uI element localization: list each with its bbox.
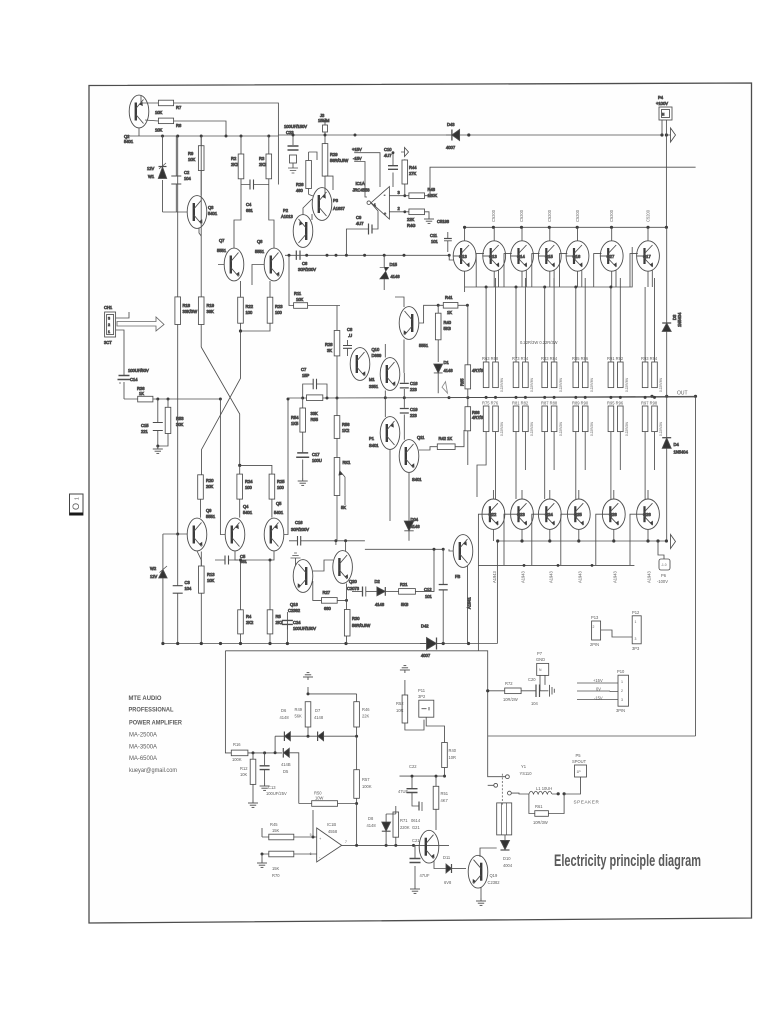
svg-text:Q13: Q13 — [459, 254, 467, 259]
node dots rail136 — [161, 135, 270, 138]
svg-text:R22: R22 — [246, 304, 254, 309]
svg-text:R45: R45 — [270, 822, 278, 827]
wire Q21 collector — [429, 828, 436, 830]
svg-text:10K: 10K — [296, 297, 304, 302]
svg-text:R29: R29 — [330, 152, 338, 157]
svg-text:+: + — [384, 212, 386, 216]
wire Q2 emitter down — [138, 128, 140, 136]
svg-text:R27: R27 — [323, 590, 331, 595]
resistor R4 2K2 — [238, 610, 254, 644]
svg-text:10K: 10K — [155, 110, 163, 115]
wire R49 R46 top bus — [308, 694, 357, 702]
wire bank drops row1 — [486, 280, 654, 362]
diode D3 — [662, 227, 671, 396]
svg-text:P6: P6 — [661, 573, 667, 578]
zener W1 12V — [147, 136, 167, 212]
resistor R26 460 — [296, 152, 325, 194]
svg-text:1: 1 — [635, 620, 637, 624]
wire emitter bus y287 — [465, 247, 633, 292]
transistor Q10 — [350, 347, 382, 380]
svg-text:3CT: 3CT — [104, 340, 112, 345]
svg-text:Q26: Q26 — [609, 512, 617, 517]
connector P13 2PIN — [590, 615, 632, 647]
svg-text:R87 R88: R87 R88 — [541, 401, 558, 406]
vertical C5200 labels — [491, 209, 651, 222]
wire R2 bottom to Q7 collector — [234, 185, 241, 249]
transistor Q24 — [538, 490, 561, 541]
resistor R23 100 — [241, 281, 284, 331]
svg-text:33K: 33K — [311, 411, 319, 416]
diode D1 4148 — [434, 360, 454, 393]
arrow marker near C10 — [401, 148, 409, 157]
svg-text:100UF/50V: 100UF/50V — [128, 368, 149, 373]
svg-text:P5: P5 — [576, 753, 582, 758]
svg-text:D43: D43 — [447, 122, 455, 127]
resistor R5 2K2 — [267, 610, 283, 644]
svg-text:A1943: A1943 — [492, 570, 497, 583]
wire bias bus y736 — [275, 736, 357, 753]
resistor R42 1K — [419, 430, 464, 450]
svg-text:10R: 10R — [396, 708, 404, 713]
wire base bus Q22 row — [478, 514, 482, 565]
node R24 top — [238, 464, 241, 467]
svg-text:4004: 4004 — [503, 863, 513, 868]
node dots rail398 — [156, 398, 222, 401]
wire W1 C2 to Q3 base — [163, 211, 188, 213]
svg-text:1K: 1K — [447, 310, 452, 315]
svg-text:R89 R90: R89 R90 — [572, 401, 589, 406]
svg-text:2: 2 — [108, 323, 110, 327]
svg-text:C3: C3 — [185, 580, 191, 585]
svg-text:Q22: Q22 — [489, 512, 497, 517]
svg-text:IC1A: IC1A — [356, 181, 365, 186]
transistor Q27 — [600, 227, 623, 287]
ground above R52 — [400, 666, 410, 687]
wire opamp out down to rail255 — [346, 229, 358, 255]
svg-text:4148: 4148 — [411, 524, 421, 529]
svg-text:A1943: A1943 — [578, 570, 583, 583]
svg-text:R28: R28 — [325, 342, 333, 347]
capacitor on Q20 emitter — [347, 591, 367, 600]
svg-text:100: 100 — [275, 310, 283, 315]
resistor R57 100K — [354, 736, 372, 805]
relay coil box — [497, 803, 512, 848]
wire FB emitter down — [443, 551, 468, 644]
svg-text:39K: 39K — [207, 309, 215, 314]
ground symbol above Q18 — [291, 553, 301, 565]
svg-text:33K/3W: 33K/3W — [183, 309, 198, 314]
svg-text:R61: R61 — [535, 804, 543, 809]
svg-text:Electricity principle diagram: Electricity principle diagram — [554, 852, 701, 870]
svg-text:D2: D2 — [375, 579, 381, 584]
svg-text:C24: C24 — [293, 620, 301, 625]
svg-text:104: 104 — [531, 701, 539, 706]
svg-text:Q27: Q27 — [607, 254, 615, 259]
svg-text:4148: 4148 — [367, 823, 377, 828]
wire center rail y398 mid — [288, 397, 696, 398]
capacitor C19 223 — [400, 398, 418, 423]
svg-text:1: 1 — [108, 330, 110, 334]
svg-text:C5198: C5198 — [437, 219, 450, 224]
wire mid rail y255 — [285, 254, 449, 256]
resistor R24 100 — [237, 465, 253, 517]
svg-text:0.22R/2W: 0.22R/2W — [625, 422, 629, 436]
wire bank row1 drops — [486, 278, 654, 362]
svg-text:A1943: A1943 — [647, 570, 652, 583]
svg-text:Q7: Q7 — [219, 238, 225, 243]
svg-text:R91 R92: R91 R92 — [607, 356, 624, 361]
svg-text:0.22R/3W: 0.22R/3W — [530, 378, 534, 392]
wire Q9 emitter down — [163, 534, 201, 566]
svg-text:0.22R/3W: 0.22R/3W — [559, 378, 563, 392]
svg-text:15P: 15P — [302, 373, 310, 378]
svg-text:20K: 20K — [206, 484, 214, 489]
jumper J3 15MM — [318, 113, 330, 144]
svg-text:0.22R/3W: 0.22R/3W — [590, 378, 594, 392]
svg-text:15MM: 15MM — [318, 118, 330, 123]
svg-text:Q14: Q14 — [517, 254, 525, 259]
svg-text:Q18: Q18 — [290, 602, 298, 607]
svg-text:22K: 22K — [407, 217, 415, 222]
svg-text:D04: D04 — [411, 517, 419, 522]
svg-text:A1943: A1943 — [613, 570, 618, 583]
resistor R71 220K — [393, 806, 410, 845]
svg-text:R25: R25 — [277, 479, 285, 484]
wire bottom rail1 — [163, 643, 498, 645]
svg-text:C6: C6 — [302, 261, 308, 266]
transistor Q26b — [637, 490, 660, 541]
svg-text:101: 101 — [425, 594, 433, 599]
svg-text:5551: 5551 — [217, 248, 227, 253]
svg-text:R5: R5 — [276, 614, 282, 619]
wire Q3 emitter — [199, 228, 201, 236]
svg-text:R48: R48 — [428, 187, 436, 192]
diode D3 1N5404 — [667, 287, 682, 327]
wire collector bus y565 — [478, 560, 634, 565]
capacitor C5 681 — [215, 554, 248, 565]
svg-text:C7: C7 — [301, 367, 307, 372]
svg-text:P7: P7 — [537, 651, 543, 656]
diode D2 4148 — [375, 579, 399, 607]
svg-text:R9: R9 — [188, 151, 194, 156]
wire top rail y135 center — [278, 134, 452, 136]
arrow glyph end of emitter bus — [671, 535, 676, 549]
wire center rail y398 left — [158, 398, 221, 400]
svg-text:OUT: OUT — [677, 391, 688, 397]
transistor Q14 — [511, 227, 534, 287]
transistor Q15 — [538, 227, 561, 287]
svg-text:R23: R23 — [275, 304, 283, 309]
wire main rail y136 — [128, 135, 278, 137]
svg-text:1: 1 — [75, 497, 81, 500]
capacitor C26 symbol — [352, 587, 377, 597]
transistor Q26 — [602, 490, 625, 541]
svg-text:D11: D11 — [443, 855, 451, 860]
resistor R21 5K6 — [399, 570, 427, 607]
svg-text:O: O — [71, 503, 81, 510]
diode D10 4004 — [497, 835, 513, 868]
wire P10 pin leads — [577, 678, 618, 701]
svg-text:C5200: C5200 — [609, 209, 614, 222]
svg-text:Q9: Q9 — [206, 508, 212, 513]
svg-text:R40: R40 — [449, 748, 457, 753]
svg-text:C22: C22 — [409, 764, 417, 769]
svg-text:6V8: 6V8 — [444, 880, 452, 885]
svg-text:4148: 4148 — [314, 715, 324, 720]
svg-text:D7: D7 — [315, 708, 321, 713]
svg-text:MTE AUDIO: MTE AUDIO — [129, 695, 162, 702]
wire L1 to P5 — [564, 777, 580, 794]
capacitor C4 681 — [241, 180, 269, 214]
svg-text:2: 2 — [621, 689, 623, 693]
svg-text:FB: FB — [455, 574, 461, 579]
svg-text:R54: R54 — [291, 415, 299, 420]
svg-text:5401: 5401 — [243, 510, 253, 515]
wire FB base — [449, 549, 453, 551]
svg-text:C20: C20 — [528, 677, 536, 682]
resistor R28 3K — [325, 306, 340, 399]
transistor Q5 — [264, 501, 284, 551]
svg-text:R55: R55 — [311, 417, 319, 422]
capacitor C16 30P/200V — [289, 520, 309, 546]
inductor L1 10UH — [529, 786, 566, 795]
svg-text:5K6: 5K6 — [444, 326, 452, 331]
wire emitter bus y541 — [498, 540, 667, 542]
svg-text:47UF: 47UF — [420, 873, 431, 878]
resistor R13 10K — [199, 552, 216, 644]
svg-text:2K2: 2K2 — [231, 162, 239, 167]
resistor R55 33K — [307, 395, 323, 422]
svg-text:0.22R/2W: 0.22R/2W — [559, 422, 563, 436]
resistor R6 — [155, 118, 182, 132]
svg-text:101: 101 — [431, 239, 439, 244]
svg-text:221: 221 — [141, 429, 149, 434]
capacitor C3 104 — [173, 534, 192, 644]
resistor R30 56R/0.5W — [344, 584, 370, 644]
svg-text:5551: 5551 — [255, 249, 265, 254]
svg-text:2K2: 2K2 — [259, 162, 267, 167]
svg-text:P2: P2 — [283, 208, 289, 213]
wire Q11 collector emitter — [404, 423, 409, 521]
wire rail2 protection box top — [225, 651, 487, 736]
svg-text:10R/2W: 10R/2W — [503, 697, 518, 702]
svg-text:D8: D8 — [368, 816, 374, 821]
svg-text:R18: R18 — [183, 303, 191, 308]
svg-text:C5200: C5200 — [575, 209, 580, 222]
svg-text:10K: 10K — [240, 772, 248, 777]
svg-text:22K: 22K — [362, 714, 370, 719]
svg-text:P1: P1 — [369, 436, 375, 441]
resistor R52 10R — [396, 687, 424, 730]
svg-text:4148: 4148 — [375, 602, 385, 607]
svg-text:+15V: +15V — [593, 678, 603, 683]
wire output row base jogs — [476, 254, 652, 287]
capacitor C21 47UF — [410, 845, 431, 893]
svg-text:RK1: RK1 — [343, 460, 352, 465]
transistor Q20 — [333, 551, 360, 591]
svg-text:R11: R11 — [294, 291, 302, 296]
svg-text:681: 681 — [246, 208, 254, 213]
svg-text:1N5404: 1N5404 — [677, 312, 682, 327]
svg-text:4148: 4148 — [280, 715, 290, 720]
svg-text:C2382: C2382 — [488, 880, 501, 885]
svg-text:R52: R52 — [396, 701, 404, 706]
capacitor C13 100UF/25V — [260, 753, 287, 796]
svg-text:R49: R49 — [295, 707, 303, 712]
svg-text:Q13: Q13 — [489, 254, 497, 259]
svg-text:100UF/25V: 100UF/25V — [266, 791, 287, 796]
svg-text:0.22R/2W: 0.22R/2W — [659, 422, 663, 436]
wire cross line B — [202, 331, 241, 475]
svg-text:C10: C10 — [384, 147, 392, 152]
svg-text:27K: 27K — [409, 171, 417, 176]
svg-text:0.22R/3W: 0.22R/3W — [659, 378, 663, 392]
svg-text:Q24: Q24 — [545, 512, 553, 517]
svg-text:M1: M1 — [369, 377, 375, 382]
svg-text:10K: 10K — [155, 128, 163, 133]
capacitor C22 47UF — [398, 764, 445, 800]
wire OUT rail — [449, 396, 696, 397]
resistor R40 5K6 — [435, 305, 451, 362]
svg-text:C15: C15 — [141, 423, 149, 428]
transistor Q6 — [399, 307, 429, 348]
resistor R70 15K — [257, 851, 317, 878]
transistor Q7 — [217, 238, 244, 281]
svg-text:R95 R96: R95 R96 — [607, 401, 624, 406]
svg-text:104: 104 — [184, 176, 192, 181]
svg-text:MA-2500A: MA-2500A — [129, 732, 158, 739]
transistor FB A1941 — [453, 535, 473, 609]
vertical A1943 labels — [492, 570, 652, 583]
svg-text:C5200: C5200 — [547, 209, 552, 222]
svg-text:100UF/150V: 100UF/150V — [293, 626, 316, 631]
wire Q18 to Q20 base — [313, 557, 333, 570]
svg-text:P4: P4 — [658, 95, 664, 100]
transistor Q3 — [187, 196, 218, 229]
svg-text:56R/0.5W: 56R/0.5W — [330, 158, 348, 163]
svg-text:R70: R70 — [272, 873, 280, 878]
svg-text:3: 3 — [635, 637, 637, 641]
resistor R16 100K — [231, 742, 282, 762]
svg-text:R75 R76: R75 R76 — [482, 401, 499, 406]
wire contact to L1 — [511, 792, 529, 795]
capacitor C10 4U7 — [384, 147, 398, 187]
wire M1 P1 column — [385, 344, 390, 521]
capacitor C14 100UF/50V — [118, 368, 149, 399]
resistor R12 10K — [240, 753, 258, 808]
svg-text:Q15: Q15 — [545, 254, 553, 259]
svg-text:3K: 3K — [327, 348, 332, 353]
svg-text:0.22R/3W: 0.22R/3W — [625, 378, 629, 392]
svg-text:10K: 10K — [188, 157, 196, 162]
wire D43 to P4 rail — [466, 134, 662, 136]
wire rail y549 — [365, 548, 443, 550]
connector P7 GND — [536, 651, 549, 691]
svg-text:C4: C4 — [246, 202, 252, 207]
connector P10 3PIN — [616, 669, 629, 713]
connector CH1 — [104, 305, 116, 345]
svg-text:C5200: C5200 — [519, 209, 524, 222]
resistor R45 15K — [262, 804, 317, 840]
svg-text:R26: R26 — [296, 182, 304, 187]
capacitor C9 4U7 — [356, 203, 378, 235]
svg-text:1K5: 1K5 — [291, 421, 299, 426]
resistor R72 10R/2W — [486, 681, 531, 702]
wire CH1 to C14 — [116, 312, 129, 375]
svg-text:C18: C18 — [410, 381, 418, 386]
svg-text:100: 100 — [246, 310, 254, 315]
wire R57 node to opamp column — [356, 804, 358, 846]
svg-text:R72: R72 — [505, 681, 513, 686]
svg-text:4K7: 4K7 — [441, 798, 449, 803]
svg-text:4U7: 4U7 — [384, 153, 392, 158]
capacitor C23 100UF/150V — [284, 124, 307, 173]
trimmer RK1 — [334, 458, 351, 541]
ground top of R49 — [303, 673, 313, 694]
capacitor C24 100UF/150V — [282, 612, 316, 644]
resistor R61 10R/3W — [529, 794, 564, 825]
svg-text:R40: R40 — [444, 320, 452, 325]
svg-text:C16: C16 — [295, 520, 303, 525]
diode D42 4007 — [420, 624, 443, 659]
svg-text:A1943: A1943 — [521, 570, 526, 583]
node R22 R23 junction — [239, 329, 242, 332]
svg-text:R51: R51 — [441, 791, 449, 796]
svg-text:R81 R82: R81 R82 — [512, 401, 529, 406]
svg-text:R65: R65 — [460, 378, 465, 386]
resistor R49 56K — [295, 702, 311, 737]
svg-text:-1.0: -1.0 — [661, 563, 667, 567]
svg-text:47UF: 47UF — [398, 789, 409, 794]
svg-text:5401: 5401 — [274, 510, 284, 515]
svg-text:30P/200V: 30P/200V — [298, 267, 316, 272]
capacitor C20 104 — [528, 677, 545, 706]
svg-text:D10: D10 — [503, 856, 511, 861]
svg-text:100K: 100K — [362, 784, 372, 789]
resistor R20 20K — [198, 475, 215, 518]
svg-text:R42 1K: R42 1K — [439, 436, 453, 441]
svg-text:R24: R24 — [245, 479, 253, 484]
diode D15 4148 — [380, 255, 401, 290]
svg-text:223: 223 — [410, 387, 418, 392]
resistor R29 56R/0.5W — [322, 144, 348, 198]
resistor R7 — [155, 100, 182, 115]
svg-text:Q17: Q17 — [643, 254, 651, 259]
zener W2 12V — [150, 564, 167, 644]
svg-text:W2: W2 — [150, 566, 157, 571]
transistor Q23 — [511, 490, 534, 541]
svg-text:R63 R68: R63 R68 — [482, 356, 499, 361]
connector P5 SPOUT — [572, 753, 587, 777]
wire rail1 right end up — [478, 541, 497, 651]
svg-text:2PIN: 2PIN — [590, 642, 599, 647]
svg-text:Q11: Q11 — [417, 435, 425, 440]
ground below C17 — [298, 478, 308, 485]
svg-text:R12: R12 — [240, 766, 248, 771]
svg-text:D6: D6 — [281, 708, 287, 713]
svg-text:15K: 15K — [272, 828, 280, 833]
wire right bus down — [695, 396, 697, 736]
svg-text:220K: 220K — [400, 825, 410, 830]
svg-text:+100V: +100V — [656, 101, 668, 106]
capacitor C7 15P — [301, 367, 327, 398]
svg-text:C5200: C5200 — [646, 209, 651, 222]
wire R7 right to top bus — [174, 103, 279, 185]
transistor Q19 — [468, 855, 500, 888]
resistor R11 10K — [288, 254, 341, 309]
diode D7 4148 — [314, 708, 324, 741]
svg-text:kueyar@gmail.com: kueyar@gmail.com — [129, 768, 177, 774]
